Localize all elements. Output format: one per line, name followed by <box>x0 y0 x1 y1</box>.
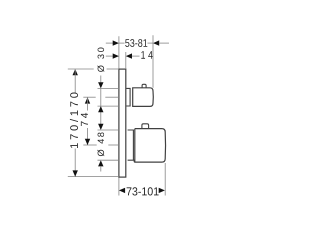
lower stem top extension <box>98 129 119 131</box>
dimension 14 right arrow <box>126 53 132 58</box>
dim 74 top arrow <box>85 97 90 103</box>
dim O48 bottom arrow <box>98 160 103 166</box>
wall plate <box>119 69 126 177</box>
dimension 14 left arrow <box>113 53 119 58</box>
extension line lower knob front (73-101) <box>164 163 166 196</box>
dim O48 lower tail <box>100 166 102 172</box>
dim O30 top arrow <box>98 82 103 88</box>
upper stem top extension <box>98 87 119 89</box>
dim 170/170 bottom arrow <box>73 170 78 176</box>
lower stem to knob bottom jog <box>132 160 135 162</box>
dimension 53-81 right tail <box>159 42 169 44</box>
upper knob tab <box>142 84 146 88</box>
plate front extension line <box>125 52 127 69</box>
dimension 14 text <box>141 51 152 59</box>
upper stem <box>126 88 130 106</box>
dimension 14 leader <box>132 55 140 57</box>
extension line knob front (53-81) <box>152 35 154 88</box>
label 74 rotated <box>81 113 88 126</box>
lower knob tab <box>142 124 149 129</box>
dim 170/170 top arrow <box>73 69 78 75</box>
lower stem <box>128 130 134 160</box>
dimension 73-101 left arrow <box>119 188 125 193</box>
lower stem bottom extension <box>98 159 119 161</box>
170 top extension line <box>68 68 94 70</box>
wall extension line <box>118 36 120 195</box>
dimension 73-101 right arrow <box>159 188 165 193</box>
dim 170/170 lower line <box>74 149 76 177</box>
lower knob U2 <box>134 129 165 163</box>
dim 74 bottom arrow <box>85 139 90 145</box>
upper stem bottom extension <box>98 105 119 107</box>
lower centerline <box>83 144 96 146</box>
dimension 73-101 text <box>127 187 159 195</box>
label 170/170 rotated <box>70 93 78 148</box>
dim 74 lower line <box>87 128 89 145</box>
dim line O30 upper tail <box>100 76 102 83</box>
dim O48 top arrow <box>98 124 103 130</box>
label O30 rotated <box>97 48 104 72</box>
dimension 53-81 right arrow <box>153 40 159 45</box>
upper centerline <box>83 96 95 98</box>
dim 74 upper line <box>87 97 89 110</box>
dimension 53-81 text <box>125 39 147 47</box>
dimension 53-81 left arrow <box>113 40 119 45</box>
upper knob U1 <box>133 88 154 107</box>
label O48 rotated <box>97 132 104 156</box>
dim O30 bottom arrow <box>98 106 103 112</box>
dim 170/170 upper line <box>74 69 76 93</box>
dim O30 mid line <box>100 88 102 124</box>
170 bottom extension line <box>68 176 119 178</box>
dimension 53-81 left tail <box>106 42 113 44</box>
dimension 53-81 line right segment <box>148 42 154 44</box>
dimension 53-81 line left segment <box>119 42 125 44</box>
dimension 14 left tail <box>106 55 113 57</box>
